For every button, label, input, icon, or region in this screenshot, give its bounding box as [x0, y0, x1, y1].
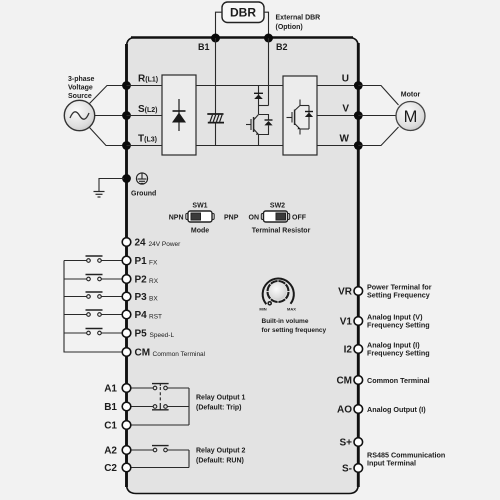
- svg-text:FX: FX: [149, 260, 158, 267]
- svg-text:U: U: [342, 74, 349, 85]
- svg-text:Relay Output 2: Relay Output 2: [196, 448, 246, 455]
- relay 1 NC contact: [152, 403, 169, 410]
- svg-text:Frequency Setting: Frequency Setting: [367, 349, 430, 358]
- protective earth symbol: [136, 173, 147, 184]
- svg-text:P5: P5: [135, 329, 148, 340]
- wire V to motor: [358, 115, 396, 117]
- svg-text:P3: P3: [135, 292, 148, 303]
- svg-text:S-: S-: [342, 464, 352, 475]
- svg-text:Common Terminal: Common Terminal: [367, 376, 430, 385]
- frame right edge: [357, 43, 360, 487]
- svg-text:P4: P4: [135, 310, 148, 321]
- svg-text:Source: Source: [68, 93, 92, 100]
- terminal V: [354, 111, 363, 120]
- svg-text:RST: RST: [149, 314, 162, 321]
- switch P3 contact: [64, 292, 122, 298]
- terminal CM right: [354, 376, 363, 385]
- svg-text:DBR: DBR: [230, 6, 256, 20]
- svg-text:V: V: [342, 104, 349, 115]
- terminal 24: [122, 238, 131, 247]
- switch P4 contact: [64, 310, 122, 316]
- DC bus capacitor branch: [215, 86, 217, 114]
- ground node on frame: [122, 174, 131, 183]
- svg-text:Mode: Mode: [191, 228, 209, 235]
- svg-text:A2: A2: [104, 446, 117, 457]
- terminal S(L2): [122, 111, 131, 120]
- svg-text:C2: C2: [104, 463, 117, 474]
- brake IGBT Q1: [246, 115, 259, 146]
- svg-text:V1: V1: [340, 317, 353, 328]
- wire inverter to W: [317, 145, 356, 147]
- terminal A1: [122, 384, 131, 393]
- wire B2 down: [268, 38, 270, 106]
- svg-text:SW2: SW2: [270, 203, 285, 210]
- switch P2 contact: [64, 275, 122, 281]
- svg-text:CM: CM: [135, 348, 151, 359]
- wire U to motor: [358, 86, 398, 106]
- terminal U: [354, 81, 363, 90]
- wire R to rectifier: [127, 85, 163, 87]
- relay output 1 wiring: [131, 388, 189, 425]
- inverter box: [283, 76, 317, 155]
- svg-text:Built-in volume: Built-in volume: [262, 318, 309, 325]
- svg-text:A1: A1: [104, 384, 117, 395]
- svg-text:B2: B2: [276, 42, 288, 52]
- terminal S-: [354, 464, 363, 473]
- relay 1 mechanical link: [159, 387, 161, 403]
- svg-text:Setting Frequency: Setting Frequency: [367, 291, 430, 300]
- wire S to rectifier: [127, 115, 163, 117]
- svg-text:Relay Output 1: Relay Output 1: [196, 395, 246, 402]
- digital input bus wire: [64, 261, 122, 353]
- svg-text:Input Terminal: Input Terminal: [367, 459, 416, 468]
- terminal P4: [122, 310, 131, 319]
- relay output 2 wiring: [131, 450, 189, 468]
- svg-text:CM: CM: [336, 376, 352, 387]
- frame left edge: [125, 44, 128, 487]
- capacitor C1: [207, 114, 224, 123]
- terminal C1: [122, 421, 131, 430]
- wire B2 to chopper node: [259, 105, 269, 107]
- svg-text:C1: C1: [104, 421, 117, 432]
- 3-phase voltage source: [64, 100, 94, 130]
- terminal A2: [122, 446, 131, 455]
- svg-text:Voltage: Voltage: [68, 85, 93, 92]
- brake IGBT freewheel diode: [259, 115, 273, 135]
- svg-text:Frequency Setting: Frequency Setting: [367, 321, 430, 330]
- svg-text:P1: P1: [135, 256, 148, 267]
- built-in volume potentiometer: [259, 279, 296, 312]
- DC- rail: [196, 145, 283, 147]
- terminal B1: [122, 402, 131, 411]
- svg-text:(Default: RUN): (Default: RUN): [196, 458, 244, 465]
- wire source to T: [90, 128, 125, 146]
- motor M: [396, 102, 425, 131]
- terminal VR: [354, 287, 363, 296]
- svg-text:B1: B1: [198, 42, 210, 52]
- switch P1 contact: [64, 256, 122, 262]
- terminal P1: [122, 256, 131, 265]
- svg-text:(Option): (Option): [276, 24, 303, 31]
- svg-text:W: W: [340, 134, 350, 145]
- DC+ rail: [196, 85, 283, 87]
- wire T to rectifier: [127, 145, 163, 147]
- svg-text:Terminal Resistor: Terminal Resistor: [252, 228, 311, 235]
- svg-text:Speed-L: Speed-L: [150, 332, 175, 339]
- terminal I2: [354, 345, 363, 354]
- svg-text:RX: RX: [149, 278, 159, 285]
- inverter IGBT: [287, 100, 310, 135]
- terminal AO: [354, 405, 363, 414]
- svg-text:S+: S+: [339, 438, 352, 449]
- svg-text:for setting frequency: for setting frequency: [262, 327, 327, 334]
- svg-text:Ground: Ground: [131, 191, 156, 198]
- svg-text:ON: ON: [249, 215, 260, 222]
- svg-text:3-phase: 3-phase: [68, 76, 95, 83]
- svg-text:VR: VR: [338, 287, 353, 298]
- terminal P3: [122, 292, 131, 301]
- svg-text:Common Terminal: Common Terminal: [153, 351, 206, 358]
- wire DBR right lead: [264, 12, 269, 37]
- relay 2 NO contact: [152, 446, 169, 452]
- wire to earth: [99, 179, 124, 192]
- wire source to R: [90, 86, 125, 104]
- inverter main block frame: [127, 38, 359, 494]
- svg-text:OFF: OFF: [292, 215, 307, 222]
- svg-text:24V Power: 24V Power: [149, 241, 182, 248]
- wire inverter to V: [317, 115, 356, 117]
- switch SW2: [249, 203, 311, 235]
- terminal V1: [354, 317, 363, 326]
- terminal R(L1): [122, 81, 131, 90]
- terminal T(L3): [122, 141, 131, 150]
- svg-text:24: 24: [135, 238, 147, 249]
- relay 1 NO contact: [152, 384, 169, 390]
- wire inverter to U: [317, 85, 356, 87]
- switch SW1: [169, 203, 239, 235]
- terminal P5: [122, 329, 131, 338]
- terminal C2: [122, 463, 131, 472]
- terminal CM left: [122, 348, 131, 357]
- terminal S+: [354, 438, 363, 447]
- node B2: [264, 34, 273, 43]
- inverter IGBT freewheel diode: [305, 106, 313, 130]
- switch P5 contact: [64, 329, 122, 335]
- svg-text:I2: I2: [344, 345, 353, 356]
- earth symbol: [94, 192, 105, 198]
- terminal P2: [122, 275, 131, 284]
- wire B1 to DC bus: [215, 38, 217, 86]
- svg-text:SW1: SW1: [192, 203, 207, 210]
- svg-text:MIN: MIN: [259, 307, 266, 312]
- wire source to S: [95, 115, 124, 117]
- svg-text:P2: P2: [135, 275, 148, 286]
- svg-text:BX: BX: [149, 296, 158, 303]
- svg-text:PNP: PNP: [224, 215, 239, 222]
- brake diode: [254, 86, 263, 115]
- node B1: [211, 34, 220, 43]
- svg-text:External DBR: External DBR: [276, 15, 321, 22]
- DBR box: [222, 2, 264, 23]
- wire W to motor: [358, 127, 398, 146]
- svg-text:B1: B1: [104, 402, 117, 413]
- svg-text:Motor: Motor: [401, 92, 421, 99]
- svg-text:(Default: Trip): (Default: Trip): [196, 405, 242, 412]
- svg-text:Analog Output (I): Analog Output (I): [367, 405, 426, 414]
- rectifier bridge box: [162, 75, 196, 155]
- svg-text:M: M: [404, 108, 418, 126]
- svg-text:AO: AO: [337, 405, 352, 416]
- wire DBR left lead: [216, 12, 223, 37]
- frame top edge: [131, 36, 353, 39]
- rectifier diode: [172, 99, 186, 131]
- terminal W: [354, 141, 363, 150]
- svg-text:NPN: NPN: [169, 215, 184, 222]
- svg-text:MAX: MAX: [287, 307, 296, 312]
